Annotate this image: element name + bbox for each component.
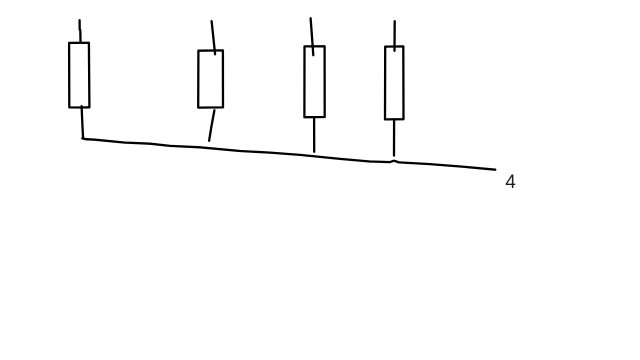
wire R2 bottom lead bbox=[209, 110, 214, 141]
wire bus line bbox=[82, 138, 495, 169]
wire R1 top lead bbox=[78, 20, 81, 41]
resistor R4 bbox=[385, 46, 404, 119]
wire R3 bottom lead bbox=[313, 118, 315, 152]
wire R4 bottom lead bbox=[393, 120, 395, 155]
wire R3 top lead bbox=[311, 18, 314, 55]
node label 4 bbox=[505, 172, 516, 193]
wire R2 top lead bbox=[212, 21, 216, 54]
svg-text:4: 4 bbox=[505, 172, 516, 193]
resistor R3 bbox=[304, 46, 324, 117]
wire R4 top lead bbox=[393, 21, 396, 51]
resistor R2 bbox=[198, 50, 223, 107]
wire R1 bottom lead bbox=[82, 106, 84, 138]
resistor R1 bbox=[69, 43, 89, 108]
